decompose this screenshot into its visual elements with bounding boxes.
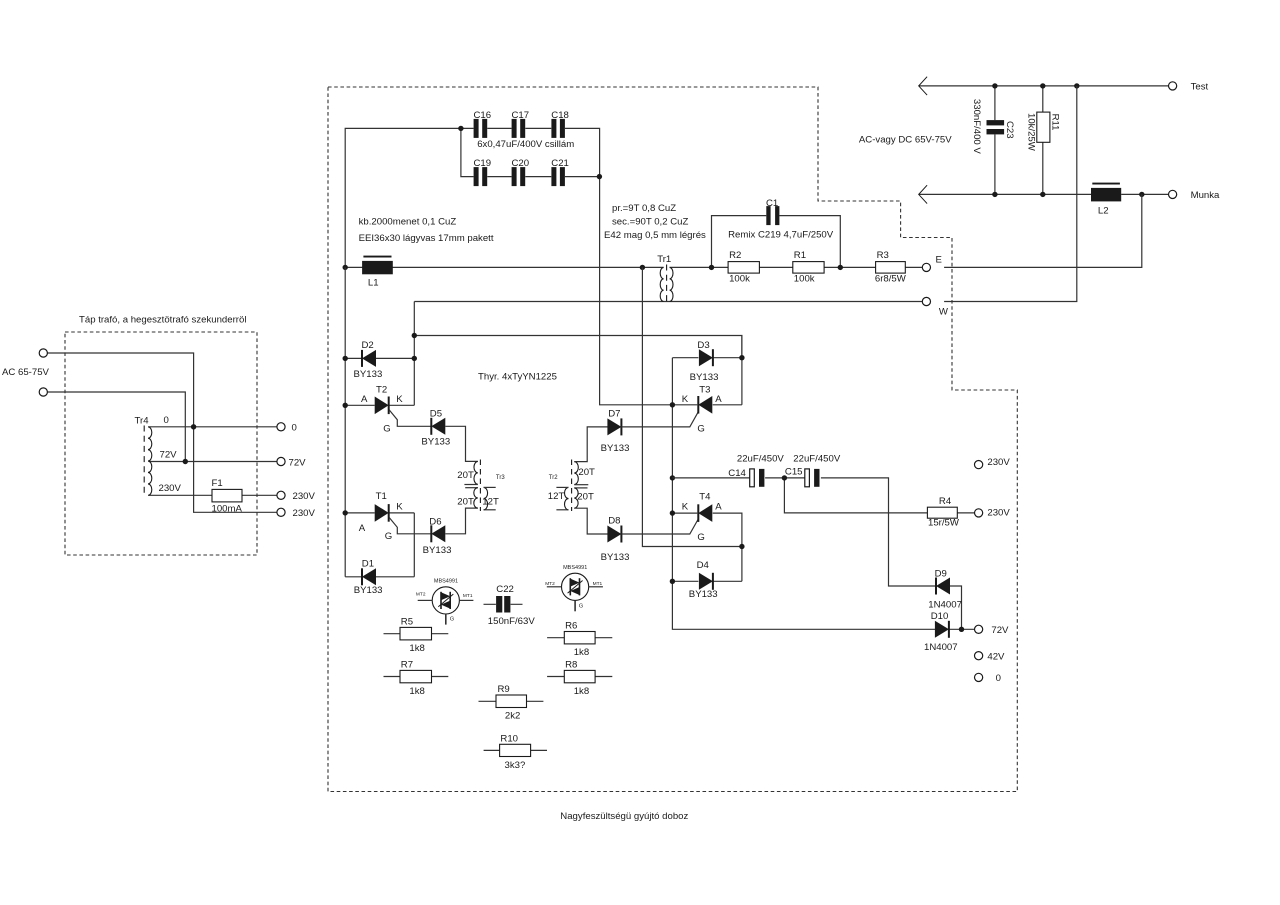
svg-text:Tr3: Tr3 [496, 475, 505, 481]
arrow: Munka feed [919, 185, 927, 203]
terminal: AC input 1 [39, 349, 47, 357]
resistor R4 [927, 507, 957, 518]
svg-text:D9: D9 [935, 568, 947, 579]
wire: C1 branch [712, 216, 841, 268]
svg-text:22uF/450V: 22uF/450V [793, 453, 841, 464]
capacitor C21 [551, 167, 565, 186]
wire: Tr4 tap 0 to output [149, 426, 277, 428]
svg-text:T2: T2 [376, 385, 387, 396]
svg-text:1k8: 1k8 [409, 686, 424, 697]
svg-text:R2: R2 [729, 250, 741, 261]
svg-text:1k8: 1k8 [574, 647, 589, 658]
wire: Tr4 tap 230V through F1 to output [149, 494, 277, 496]
wire: Tr2 winding2 top stub [574, 487, 587, 489]
transformer Tr2 winding 20T upper [574, 462, 578, 485]
svg-text:G: G [385, 531, 392, 542]
svg-text:72V: 72V [991, 625, 1009, 636]
svg-text:MT2: MT2 [545, 581, 555, 587]
wire: D2 branch [345, 357, 414, 359]
svg-text:R7: R7 [401, 659, 413, 670]
wire: C15 to D9 [821, 478, 936, 586]
transformer Tr2 winding 12T [565, 487, 569, 509]
wire: Munka node riser to E [944, 194, 1142, 267]
terminal: 230V output [277, 491, 285, 499]
svg-text:42V: 42V [987, 652, 1005, 663]
terminal: AC input 2 [39, 388, 47, 396]
inductor L1 [362, 256, 393, 275]
resistor R10 [500, 744, 531, 756]
svg-text:1k8: 1k8 [409, 643, 424, 654]
wire: D7 to T3 gate [621, 412, 698, 427]
svg-text:22uF/450V: 22uF/450V [737, 453, 785, 464]
dashed box: high-voltage igniter enclosure [328, 87, 1017, 792]
svg-text:AC 65-75V: AC 65-75V [2, 367, 50, 378]
svg-text:R1: R1 [794, 250, 806, 261]
wire: cap bank row 2 [461, 128, 600, 176]
resistor R8 [564, 670, 595, 682]
transformer Tr2 core [571, 460, 573, 512]
svg-text:R11: R11 [1050, 114, 1061, 131]
terminal: 72V output [277, 457, 285, 465]
wire: R7 leads [384, 676, 449, 678]
svg-text:G: G [697, 423, 704, 434]
transformer Tr1 primary [660, 267, 663, 301]
svg-text:D3: D3 [697, 340, 709, 351]
arrow: Test feed [919, 77, 927, 95]
resistor R6 [564, 632, 595, 644]
svg-text:R3: R3 [877, 250, 889, 261]
junction C23 bottom [992, 192, 997, 197]
junction: C1 right [838, 265, 843, 270]
wire: R5 leads [384, 633, 449, 635]
svg-text:pr.=9T 0,8 CuZ: pr.=9T 0,8 CuZ [612, 203, 676, 214]
svg-text:1N4007: 1N4007 [928, 600, 962, 611]
wire: R8 leads [547, 676, 612, 678]
wire: Munka line left of L2 [919, 193, 1091, 195]
capacitor C19 [474, 167, 488, 186]
wire: D3 right riser [741, 336, 743, 405]
terminal 72V [975, 625, 983, 633]
svg-text:C1: C1 [766, 198, 778, 209]
svg-text:D2: D2 [362, 340, 374, 351]
svg-text:72V: 72V [289, 457, 307, 468]
svg-text:MBS4991: MBS4991 [434, 578, 458, 584]
svg-text:230V: 230V [293, 491, 316, 502]
diode D8 [607, 526, 621, 543]
wire: T2 gate to D5 [389, 410, 431, 426]
svg-text:G: G [383, 423, 390, 434]
svg-text:12T: 12T [482, 496, 499, 507]
wire: left bus [344, 267, 346, 576]
junction D4 left [670, 579, 675, 584]
svg-text:kb.2000menet 0,1 CuZ: kb.2000menet 0,1 CuZ [359, 217, 457, 228]
junction T4 anode link [739, 544, 744, 549]
junction T4 cathode [670, 510, 675, 515]
junction: bus top on main line [343, 265, 348, 270]
diode D3 [699, 349, 713, 366]
svg-text:A: A [359, 523, 366, 534]
svg-text:Munka: Munka [1191, 190, 1220, 201]
wire: D9 to 72V node [950, 586, 962, 629]
wire: T2 branch [345, 404, 414, 406]
svg-text:R10: R10 [500, 733, 518, 744]
svg-text:72V: 72V [160, 450, 178, 461]
capacitor C17 [512, 119, 526, 138]
svg-text:C23: C23 [1004, 121, 1015, 139]
svg-text:MBS4991: MBS4991 [563, 565, 587, 571]
transformer Tr1 secondary [670, 267, 673, 301]
junction riser to D3 link [412, 333, 417, 338]
terminal 230V a [975, 461, 983, 469]
junction C23 top [992, 83, 997, 88]
junction D3 right [739, 355, 744, 360]
svg-text:C14: C14 [728, 468, 746, 479]
transformer Tr3 core [479, 460, 481, 512]
wire: T4 anode and drop to D4 [713, 513, 742, 581]
wire: diac2 MT1 lead [589, 586, 603, 588]
svg-text:230V: 230V [987, 508, 1010, 519]
svg-text:C18: C18 [551, 110, 569, 121]
svg-text:0: 0 [292, 423, 297, 434]
wire: diac2 gate lead [574, 600, 576, 611]
svg-text:6x0,47uF/400V csillám: 6x0,47uF/400V csillám [477, 139, 574, 150]
svg-text:330nF/400 V: 330nF/400 V [971, 99, 982, 155]
svg-text:L1: L1 [368, 278, 379, 289]
wire: Tr3 winding1 tap stub [464, 484, 477, 486]
svg-text:E42 mag 0,5 mm légrés: E42 mag 0,5 mm légrés [604, 230, 706, 241]
transformer Tr4 winding [148, 427, 152, 496]
svg-text:D6: D6 [429, 516, 441, 527]
diode D9 [936, 578, 950, 595]
wire: main line Tr1 to E terminal [670, 266, 923, 268]
diode D6 [431, 525, 445, 542]
svg-text:F1: F1 [212, 478, 223, 489]
thyristor T2 [375, 397, 389, 415]
wire: T3 cathode [672, 404, 697, 406]
svg-text:D5: D5 [430, 409, 442, 420]
svg-text:G: G [697, 532, 704, 543]
svg-text:A: A [715, 394, 722, 405]
wire: T1 gate to D6 [389, 518, 431, 534]
svg-text:Thyr. 4xTyYN1225: Thyr. 4xTyYN1225 [478, 372, 557, 383]
junction L2 to E riser [1139, 192, 1144, 197]
svg-text:K: K [682, 394, 689, 405]
transformer Tr3 winding 20T upper [474, 461, 478, 484]
svg-text:R6: R6 [565, 621, 577, 632]
svg-text:R5: R5 [401, 616, 413, 627]
svg-text:A: A [361, 394, 368, 405]
wire: T1 branch and cathode drop [345, 513, 414, 577]
wire: D3 branch [672, 357, 742, 359]
svg-text:K: K [396, 394, 403, 405]
junction D9-D10 [959, 627, 964, 632]
svg-text:BY133: BY133 [354, 585, 383, 596]
svg-text:R8: R8 [565, 659, 577, 670]
svg-text:Tr1: Tr1 [657, 254, 671, 265]
transformer Tr3 winding 12T [484, 487, 488, 509]
svg-text:BY133: BY133 [601, 443, 630, 454]
svg-text:G: G [450, 617, 454, 623]
svg-text:230V: 230V [159, 483, 182, 494]
svg-text:T3: T3 [699, 385, 710, 396]
svg-text:D7: D7 [608, 409, 620, 420]
transformer Tr1 core [666, 265, 668, 304]
svg-text:C20: C20 [512, 158, 530, 169]
svg-text:Tr4: Tr4 [135, 415, 150, 426]
wire: C14-C15 node through R4 to 230V out [784, 478, 974, 513]
svg-text:Tr2: Tr2 [549, 475, 558, 481]
svg-text:BY133: BY133 [421, 436, 450, 447]
capacitor C1 [766, 206, 779, 225]
junction bus-T1 [343, 510, 348, 515]
resistor R7 [400, 670, 432, 682]
wire: Tr2 winding1 tap stub [574, 484, 588, 486]
fuse F1 100mA [212, 489, 242, 502]
capacitor C20 [512, 167, 526, 186]
wire: diac2 MT2 lead [547, 586, 562, 588]
diac MBS4991 no.1 [432, 587, 459, 614]
diac MBS4991 no.2 [562, 573, 589, 600]
svg-text:BY133: BY133 [423, 545, 452, 556]
svg-text:R9: R9 [498, 684, 510, 695]
svg-text:C17: C17 [512, 110, 530, 121]
svg-text:E: E [936, 254, 942, 265]
svg-text:C22: C22 [496, 584, 514, 595]
junction bus-T2 [343, 403, 348, 408]
capacitor C22 [496, 596, 510, 613]
wire: T4 cathode [672, 512, 697, 514]
wire: diac1 MT2 lead [418, 599, 433, 601]
svg-text:20T: 20T [457, 497, 474, 508]
wire: T2 cathode node to D3 node [414, 336, 742, 358]
wire: R10 leads [484, 749, 547, 751]
svg-text:BY133: BY133 [689, 589, 718, 600]
capacitor C18 [551, 119, 565, 138]
svg-text:Táp trafó, a hegesztötrafó sze: Táp trafó, a hegesztötrafó szekunderröl [79, 315, 246, 326]
diode D1 [362, 568, 376, 585]
junction bus-D2 [343, 356, 348, 361]
terminal 230V b [975, 509, 983, 517]
svg-text:Nagyfeszültségü gyújtó doboz: Nagyfeszültségü gyújtó doboz [560, 811, 688, 822]
wire: C23 leads [994, 86, 996, 194]
resistor R9 [496, 695, 527, 708]
junction D2-riser [412, 356, 417, 361]
transformer Tr4 core [143, 426, 145, 495]
svg-text:6r8/5W: 6r8/5W [875, 274, 907, 285]
inductor L2 [1091, 183, 1121, 202]
wire: C22 leads [484, 603, 523, 605]
terminal E [922, 263, 930, 271]
svg-text:0: 0 [164, 415, 169, 426]
svg-text:BY133: BY133 [354, 369, 383, 380]
svg-text:2k2: 2k2 [505, 710, 520, 721]
junction T3 cathode [670, 402, 675, 407]
capacitor C15 22uF/450V [805, 469, 820, 487]
svg-text:sec.=90T 0,2 CuZ: sec.=90T 0,2 CuZ [612, 216, 688, 227]
svg-text:R4: R4 [939, 496, 952, 507]
terminal: 0 output [277, 423, 285, 431]
wire: Test line [919, 85, 1169, 87]
junction: row2 right [597, 174, 602, 179]
svg-text:150nF/63V: 150nF/63V [488, 616, 536, 627]
svg-text:12T: 12T [548, 491, 565, 502]
svg-text:G: G [579, 604, 583, 610]
resistor R3 [876, 262, 906, 274]
transformer Tr3 winding 20T lower [474, 488, 478, 508]
diode D2 [362, 350, 376, 367]
diode D7 [607, 418, 621, 435]
wire: Tr4 tap 72V to output [149, 461, 277, 463]
svg-text:1k8: 1k8 [574, 686, 589, 697]
wire: R11 leads [1042, 86, 1044, 194]
wire: main line left of Tr1 [345, 266, 663, 268]
diode D5 [431, 418, 445, 435]
capacitor C16 [474, 119, 488, 138]
wire: D8 to T4 gate [621, 520, 698, 535]
wire: T2 cathode riser to Tr1 primary bottom [413, 302, 415, 406]
wire: Tr3 12T top stub [484, 486, 496, 488]
wire: R6 leads [547, 637, 612, 639]
wire: AC input 2 to 72V tap [47, 392, 185, 462]
wire: Tr3 12T bottom stub [484, 509, 496, 511]
junction W riser top [1074, 83, 1079, 88]
svg-text:MT1: MT1 [463, 593, 473, 599]
svg-text:100k: 100k [729, 274, 750, 285]
diode D10 [935, 621, 949, 638]
thyristor T3 [698, 396, 712, 414]
terminal 0 [975, 673, 983, 681]
junction: row2 tap [458, 126, 463, 131]
svg-text:K: K [682, 502, 689, 513]
wire: Tr1 bottom line to W terminal [414, 301, 922, 303]
svg-text:K: K [396, 501, 403, 512]
diode D4 [699, 573, 713, 590]
terminal Munka [1169, 190, 1177, 198]
svg-text:10k/25W: 10k/25W [1025, 113, 1036, 152]
svg-text:20T: 20T [578, 467, 595, 478]
svg-text:D4: D4 [697, 560, 710, 571]
svg-text:20T: 20T [457, 470, 474, 481]
svg-text:100mA: 100mA [212, 503, 243, 514]
junction C14-C15 [782, 475, 787, 480]
wire: diac1 gate lead [445, 614, 447, 625]
svg-text:T4: T4 [699, 492, 711, 503]
wire: Tr2 12T top stub [556, 486, 568, 488]
junction: main line to T4 anode branch [640, 265, 645, 270]
wire: Test node riser to W [944, 86, 1077, 302]
svg-text:C21: C21 [551, 158, 569, 169]
svg-text:C15: C15 [785, 466, 803, 477]
wire: right bus 672 down to D10 [672, 358, 935, 630]
svg-text:3k3?: 3k3? [505, 760, 526, 771]
wire: D10 to 72V terminal [949, 628, 975, 630]
wire: Munka line right of L2 [1121, 193, 1168, 195]
thyristor T1 [375, 504, 389, 522]
svg-text:A: A [715, 502, 722, 513]
capacitor C14 22uF/450V [750, 469, 765, 487]
junction R11 bottom [1040, 192, 1045, 197]
wire: cap bank row 1 and right riser to T3 cathode [345, 128, 672, 404]
terminal 42V [975, 652, 983, 660]
wire: D1 branch [345, 576, 414, 578]
svg-text:Remix C219 4,7uF/250V: Remix C219 4,7uF/250V [728, 229, 834, 240]
wire: Tr3 winding2 top stub [465, 487, 478, 489]
junction: AC2 to 72V tap [183, 459, 188, 464]
svg-text:MT2: MT2 [416, 591, 426, 597]
wire: Tr2 winding2 to D8 [574, 508, 607, 534]
wire: diac1 MT1 lead [459, 599, 473, 601]
svg-text:W: W [939, 307, 949, 318]
svg-text:20T: 20T [577, 492, 594, 503]
wire: D6 to Tr3 winding 2 [445, 508, 478, 534]
thyristor T4 [698, 504, 712, 522]
junction C14 tap [670, 475, 675, 480]
dashed box: supply transformer [65, 332, 257, 555]
svg-text:EEI36x30 lágyvas 17mm pakett: EEI36x30 lágyvas 17mm pakett [359, 233, 494, 244]
svg-text:C16: C16 [474, 110, 492, 121]
wire: R9 leads [479, 700, 544, 702]
resistor R11 [1037, 112, 1050, 142]
svg-text:C19: C19 [474, 158, 492, 169]
capacitor C23 [987, 120, 1005, 134]
svg-text:BY133: BY133 [690, 372, 719, 383]
resistor R1 [793, 262, 824, 274]
wire: D4 branch [672, 580, 742, 582]
resistor R5 [400, 627, 432, 640]
svg-text:15r/5W: 15r/5W [928, 518, 960, 529]
svg-text:MT1: MT1 [593, 581, 603, 587]
svg-text:BY133: BY133 [601, 552, 630, 563]
junction: C1 left [709, 265, 714, 270]
svg-text:1N4007: 1N4007 [924, 642, 958, 653]
wire: T3 anode [713, 404, 742, 406]
svg-text:230V: 230V [293, 508, 316, 519]
wire: main line to T4 anode node [642, 267, 742, 546]
terminal: 230V output 2 [277, 508, 285, 516]
transformer Tr2 winding 20T lower [574, 488, 578, 508]
svg-text:D8: D8 [608, 516, 620, 527]
svg-text:0: 0 [996, 673, 1001, 684]
junction: AC1 to tap 0 [191, 424, 196, 429]
svg-text:AC-vagy DC 65V-75V: AC-vagy DC 65V-75V [859, 134, 952, 145]
wire: Tr2 winding1 to D7 [574, 427, 607, 462]
svg-text:L2: L2 [1098, 206, 1109, 217]
wire: AC input 1 to tap 0 and 230V out 2 [47, 353, 277, 512]
svg-text:D10: D10 [931, 611, 949, 622]
svg-text:Test: Test [1191, 82, 1209, 93]
svg-text:100k: 100k [794, 274, 815, 285]
svg-text:230V: 230V [987, 457, 1010, 468]
junction R11 top [1040, 83, 1045, 88]
wire: D5 to Tr3 winding 1 [445, 426, 478, 461]
terminal Test [1169, 82, 1177, 90]
wire: to C14 and C15 [672, 477, 804, 479]
svg-text:T1: T1 [376, 491, 387, 502]
resistor R2 [728, 262, 759, 274]
terminal W [922, 297, 930, 305]
wire: Tr2 12T bottom stub [556, 509, 568, 511]
svg-text:D1: D1 [362, 558, 374, 569]
